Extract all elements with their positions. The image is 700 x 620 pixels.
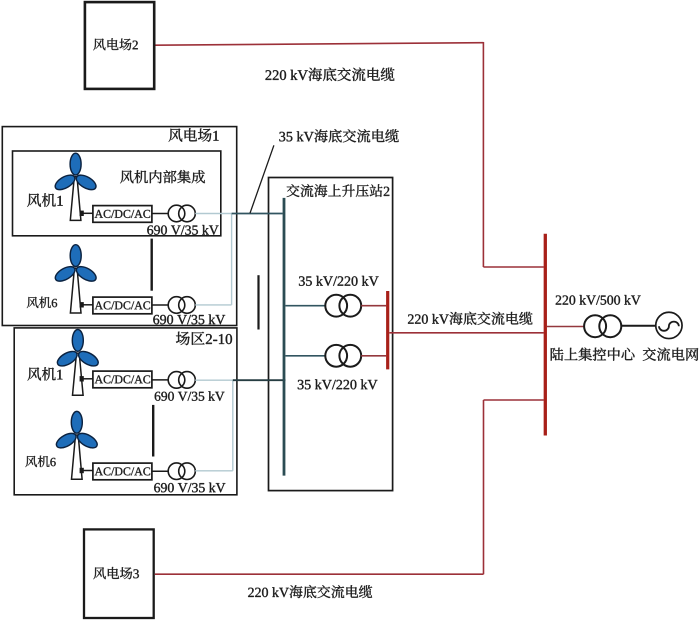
converter AC/DC/AC (area WT6) [93, 463, 152, 480]
label 690 V/35 kV (WT6) [153, 314, 225, 324]
wire 35kV collection riser (area string) [232, 380, 234, 471]
wire 35kV collection (area WT6) [195, 470, 233, 472]
label AC/DC/AC (area WT6) [95, 467, 151, 475]
wire transformer A to 220kV busbar [361, 305, 386, 307]
box offshore AC substation 2 (交流海上升压站2) [269, 178, 393, 491]
label 220 kV submarine AC cable (middle) [408, 312, 532, 325]
label AC/DC/AC (WT1) [95, 210, 151, 218]
wire 220kV cable (vertical down) [482, 42, 484, 267]
wire converter to transformer (area WT1) [152, 379, 168, 381]
220kV onshore busbar [544, 234, 547, 436]
label 风电场3 [93, 567, 138, 579]
35kV busbar (teal) [283, 198, 286, 476]
label 690 V/35 kV (area WT1) [155, 391, 225, 401]
wire 35kV collection (WT6, light blue) [195, 304, 231, 306]
transformer 690V/35kV (WT1) [168, 205, 195, 222]
wire turbine to converter (WT6) [83, 304, 93, 306]
wire 35kV collection riser (string 1) [231, 214, 233, 305]
label 35 kV/220 kV (B) [298, 379, 378, 389]
wire 35kV collection (WT1, light blue) [195, 213, 231, 215]
label 风机1 (场区) [27, 367, 62, 380]
wire converter to transformer (WT6) [152, 304, 168, 306]
label 风电场2 [93, 38, 138, 50]
wire 220kV cable into onshore busbar (bottom) [484, 399, 544, 401]
label 场区2-10 [176, 332, 232, 345]
box wind farm 2 (风电场2) [85, 2, 154, 89]
wire 220kV export cable to shore [389, 332, 544, 334]
wire 35kV collection (area WT1) [195, 379, 233, 381]
wire converter to transformer (area WT6) [152, 470, 168, 472]
220kV busbar (substation) [386, 291, 389, 369]
wind turbine WT6 (风机6 of 风电场1) [53, 245, 99, 313]
label 690 V/35 kV (WT1) [147, 225, 218, 235]
transformer 690V/35kV (WT6) [168, 297, 195, 314]
label 风电场1 [169, 128, 219, 142]
box wind farm 1 (风电场1) [2, 127, 236, 326]
label AC/DC/AC (area WT1) [95, 375, 151, 383]
transformer 690V/35kV (area WT1) [168, 372, 195, 389]
label AC/DC/AC (WT6) [95, 301, 151, 309]
AC grid source symbol (交流电网) [656, 312, 682, 338]
label 220 kV submarine AC cable (bottom) [248, 585, 372, 598]
ellipsis line turbines 2-5 (string 1) [150, 239, 152, 291]
ellipsis line more feeders [257, 275, 259, 329]
label 风机1 [27, 193, 63, 207]
label 风机内部集成 [120, 170, 205, 183]
wire string-1 feeder to 35kV busbar [232, 213, 283, 215]
wire turbine to converter [83, 212, 93, 214]
wire 220kV cable from wind farm 3 (horizontal) [155, 573, 484, 575]
main transformer A 35kV/220kV [325, 295, 361, 317]
converter AC/DC/AC (area WT1) [93, 371, 152, 388]
wind turbine WT6 (场区) [54, 411, 100, 479]
leader line for 35kV cable label [250, 145, 274, 213]
label 风机6 [27, 297, 57, 308]
box turbine internal integration (风机内部集成) [13, 151, 221, 236]
wire busbar to 500kV transformer [547, 326, 584, 328]
wind turbine WT1 (风机1 of 风电场1) [53, 153, 99, 220]
wire 220kV cable from wind farm 2 (horizontal) [156, 43, 484, 46]
converter AC/DC/AC (WT6) [93, 297, 152, 314]
label 220 kV submarine AC cable (top) [265, 68, 394, 82]
wire transformer to AC grid [621, 325, 656, 327]
label 35 kV submarine AC cable [279, 129, 398, 142]
label 风机6 (场区) [25, 456, 55, 467]
wind turbine WT1 (场区) [55, 330, 101, 396]
box wind farm 3 (风电场3) [84, 529, 154, 618]
wire 220kV cable (vertical up) [483, 400, 485, 574]
wire 220kV cable into onshore busbar [483, 266, 543, 268]
converter AC/DC/AC (WT1) [93, 206, 152, 223]
wire busbar to main transformer B [285, 355, 325, 357]
wire turbine to converter (area WT6) [83, 470, 93, 472]
transformer 690V/35kV (area WT6) [168, 463, 195, 480]
ellipsis line turbines 2-5 (area string) [152, 405, 154, 457]
wire transformer B to 220kV busbar [361, 355, 386, 357]
label 35 kV/220 kV (A) [299, 276, 379, 286]
label 220 kV/500 kV [556, 295, 641, 305]
label 690 V/35 kV (area WT6) [154, 483, 225, 493]
wire turbine to converter (area WT1) [83, 378, 93, 380]
label 陆上集控中心 交流电网 [551, 348, 699, 361]
wire converter to transformer [152, 213, 168, 215]
wire area feeder to 35kV busbar [233, 379, 286, 381]
wire busbar to main transformer A [285, 305, 325, 307]
transformer 220kV/500kV [584, 315, 621, 337]
label 交流海上升压站2 [287, 184, 390, 197]
box field areas 2-10 (场区2-10) [14, 328, 237, 495]
main transformer B 35kV/220kV [325, 345, 361, 367]
